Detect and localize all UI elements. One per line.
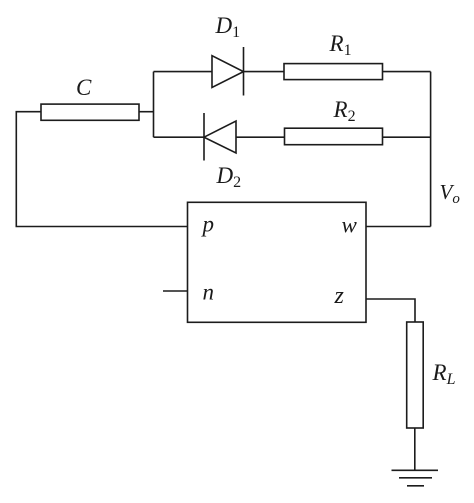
wire: R1 to right rail: [383, 71, 431, 73]
svg-text:D2: D2: [216, 163, 242, 191]
svg-text:D1: D1: [215, 13, 241, 41]
resistor R2: [285, 128, 383, 145]
wire: RL to ground: [414, 428, 416, 470]
label Vo: [440, 180, 461, 207]
label w: [342, 213, 358, 238]
wire: z output to RL: [366, 299, 415, 322]
svg-text:p: p: [201, 212, 215, 237]
diode D1: [212, 47, 244, 96]
wire: top branch to D1 anode: [154, 71, 213, 73]
svg-text:n: n: [203, 280, 215, 305]
label D1: [215, 13, 241, 41]
wire: w output to right rail: [366, 226, 431, 228]
label R2: [333, 97, 356, 125]
label z: [334, 283, 345, 309]
diode D2: [204, 113, 236, 161]
svg-text:Vo: Vo: [440, 180, 461, 207]
svg-text:R1: R1: [329, 31, 352, 59]
capacitor C: [41, 104, 139, 120]
svg-text:z: z: [334, 283, 345, 309]
label C: [76, 75, 92, 100]
wire: D2 anode to R2: [236, 136, 285, 138]
svg-text:C: C: [76, 75, 92, 100]
op-amp block U1: [188, 202, 367, 322]
svg-text:RL: RL: [432, 360, 456, 388]
label R1: [329, 31, 352, 59]
label RL: [432, 360, 456, 388]
resistor R1: [284, 64, 383, 80]
label D2: [216, 163, 242, 191]
resistor RL: [407, 322, 424, 428]
label p: [201, 212, 215, 237]
ground: [392, 470, 439, 486]
svg-text:R2: R2: [333, 97, 356, 125]
label n: [203, 280, 215, 305]
wire: C right lead to junction: [139, 111, 154, 113]
wire: R2 to right rail: [383, 136, 431, 138]
wire: right rail: [430, 72, 432, 227]
svg-text:w: w: [342, 213, 358, 238]
wire: junction vertical between branches: [153, 72, 155, 138]
wire: second branch to D2 cathode: [154, 136, 205, 138]
wire: D1 cathode to R1: [244, 71, 285, 73]
wire: C left lead, left rail and bottom wire to p: [16, 112, 187, 227]
wire: n stub: [163, 290, 188, 292]
